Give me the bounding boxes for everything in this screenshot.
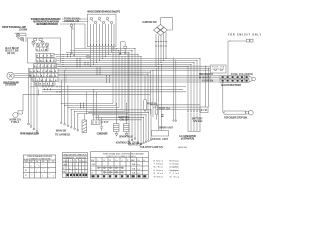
connector row 4 [30, 69, 59, 73]
ignition coil 2 with spark plug [124, 124, 130, 137]
table B frame [63, 153, 88, 178]
CDI unit box [92, 89, 101, 124]
left bottom connector terminals [28, 123, 38, 132]
turn signal control switch [70, 23, 75, 56]
svg-text:SPARK UNIT: SPARK UNIT [159, 127, 173, 130]
fuse capsule B [155, 68, 158, 120]
svg-text:G R Br Y W Bu B: G R Br Y W Bu B [30, 71, 57, 73]
svg-text:Br Brown: Br Brown [170, 159, 180, 162]
color code legend [154, 159, 180, 178]
right small box [200, 107, 208, 113]
svg-text:Lg Light green: Lg Light green [170, 169, 180, 172]
svg-text:SW: SW [24, 159, 28, 161]
coil feed wires [117, 104, 127, 124]
svg-text:—: — [48, 168, 50, 170]
svg-text:o—o: o—o [36, 171, 46, 173]
front turn signal lamp symbols [15, 33, 27, 42]
svg-text:R/W: R/W [201, 110, 208, 112]
svg-text:FUSE 15A: FUSE 15A [159, 108, 170, 111]
handlebar switch bottom connector ticks [91, 44, 115, 46]
svg-text:SILICON RECTIFIER: SILICON RECTIFIER [221, 85, 241, 87]
svg-text:TYPE A: TYPE A [11, 121, 20, 124]
ignition coil 1 with spark plug [114, 124, 120, 137]
wire leader lines from indicator-lamp labels [60, 19, 88, 49]
svg-text:OFF: OFF [92, 164, 97, 166]
secondary lower bundle (center) [88, 110, 151, 144]
center bottom connector dots [140, 139, 152, 145]
svg-text:—: — [37, 164, 39, 166]
table C contact chains [98, 167, 124, 173]
svg-text:(HI-LO): (HI-LO) [7, 53, 15, 55]
alternator wires lower [188, 113, 201, 132]
svg-text:TAIL/STOP LAMP 12V: TAIL/STOP LAMP 12V [140, 146, 163, 149]
svg-text:CONTROL SW: CONTROL SW [64, 21, 80, 23]
svg-text:UNIT: UNIT [102, 122, 110, 124]
svg-text:15A: 15A [132, 167, 136, 170]
connector row 0 [36, 47, 48, 51]
part number note [178, 147, 188, 149]
connector row 1 [36, 53, 54, 57]
horn [13, 111, 23, 118]
svg-text:FOR CM185T ONLY: FOR CM185T ONLY [228, 35, 261, 37]
svg-text:—: — [42, 164, 44, 166]
svg-text:CDI: CDI [92, 123, 99, 125]
svg-text:W WHITE: W WHITE [199, 77, 211, 79]
svg-text:R Red: R Red [154, 173, 164, 175]
svg-text:Bu Blue: Bu Blue [154, 167, 164, 169]
handlebar switch internal wires [91, 24, 115, 44]
svg-text:FUSE 15A (MAIN): FUSE 15A (MAIN) [231, 73, 253, 76]
condenser [100, 117, 103, 131]
handlebar switch box outline [88, 14, 117, 47]
svg-text:MAIN SW: MAIN SW [56, 129, 67, 132]
svg-text:—: — [43, 168, 45, 170]
ignition switch drop wires [156, 32, 166, 67]
svg-text:Gr Gray: Gr Gray [170, 175, 180, 178]
svg-text:L: L [92, 168, 94, 170]
harness lines to fuse box right [58, 66, 210, 74]
svg-text:CONTINUITY: CONTINUITY [63, 157, 75, 159]
harness staircase under handlebar box [91, 47, 115, 67]
svg-text:N: N [25, 170, 27, 172]
headlight bulb [7, 72, 34, 79]
svg-text:Gr: Gr [36, 161, 39, 163]
svg-text:SW: SW [91, 160, 94, 162]
harness lines into rectifier [58, 76, 220, 82]
svg-text:P Pink: P Pink [170, 173, 180, 175]
spark unit box [152, 131, 169, 137]
svg-text:(SWITCH CONNECTIONS): (SWITCH CONNECTIONS) [107, 156, 136, 158]
svg-text:TURN SIGNAL AND LIGHTING SW DI: TURN SIGNAL AND LIGHTING SW DIAGRAM [103, 152, 144, 155]
spark advancer verticals [173, 58, 177, 122]
svg-text:REAR TURN SIGNAL 12V23W: REAR TURN SIGNAL 12V23W [20, 133, 40, 136]
lower-left connector dots [61, 122, 79, 131]
ignition drop connector ticks [155, 42, 167, 47]
svg-text:W White: W White [154, 175, 164, 178]
tail/brake light lines (middle) [23, 86, 186, 111]
table C bottom dark cells [92, 175, 147, 177]
svg-text:G Green: G Green [154, 169, 164, 172]
svg-text:12V 35/25W: 12V 35/25W [5, 85, 17, 87]
svg-text:SPARK UNIT: SPARK UNIT [152, 138, 169, 141]
svg-text:Br G Y W: Br G Y W [37, 56, 53, 58]
rectifier cell marks [222, 76, 248, 82]
svg-text:B Black: B Black [154, 160, 164, 162]
micro text in connector rows [30, 49, 57, 85]
rear stop light switch [223, 110, 253, 115]
svg-text:R/W RED/WHT: R/W RED/WHT [199, 74, 214, 76]
svg-text:o—o: o—o [42, 176, 55, 178]
svg-text:POSITION: POSITION [76, 157, 87, 159]
ignition switch side loop [161, 18, 173, 30]
fuse box inner label [212, 66, 225, 69]
connector ticks on middle lines [43, 86, 52, 91]
svg-text:HEAD LIGHT SW CONNECTION: HEAD LIGHT SW CONNECTION [64, 153, 88, 156]
rectifier connector rows [220, 76, 255, 83]
svg-text:CONDENSER: CONDENSER [97, 134, 108, 136]
svg-text:O Orange: O Orange [170, 163, 180, 166]
svg-text:Br Y G W R B: Br Y G W R B [34, 66, 56, 68]
connector ticks on harness bundle [57, 54, 110, 109]
ignition switch diamond [154, 25, 168, 36]
svg-text:L: L [25, 165, 27, 167]
svg-text:G GREEN: G GREEN [202, 81, 213, 83]
svg-text:—: — [31, 174, 33, 176]
left vertical wires from cluster [29, 68, 38, 131]
fuse capsule A [144, 100, 147, 111]
handlebar switch internal symbols [90, 17, 112, 23]
lower harness bundle (left, with risers) [61, 47, 128, 114]
svg-text:FUSE 15A: FUSE 15A [212, 66, 225, 69]
alternator connector ticks [187, 110, 200, 112]
svg-text:R: R [25, 175, 27, 177]
turn signal indicator cluster box [28, 38, 61, 63]
svg-text:10A: 10A [132, 163, 136, 166]
svg-text:o-o: o-o [137, 164, 141, 166]
main switch (hatched) [82, 92, 87, 133]
lower bundle left staircase drops [61, 71, 78, 130]
svg-text:Lb Light blue: Lb Light blue [170, 166, 180, 169]
svg-text:12V 9AH: 12V 9AH [193, 120, 203, 123]
svg-text:0030Z-354: 0030Z-354 [178, 147, 188, 149]
connector row 7 [35, 82, 55, 86]
svg-text:W: W [79, 161, 81, 163]
connector row 3 [34, 64, 57, 68]
svg-text:Y G W R Br B: Y G W R Br B [33, 80, 58, 82]
connector pair center [161, 115, 164, 117]
table C frame [90, 152, 148, 179]
left-center vertical drops to rear lamps [128, 49, 141, 144]
alternator feed staircase (right) [188, 59, 200, 112]
svg-text:G Bu W R Y: G Bu W R Y [37, 60, 56, 62]
svg-text:SW: SW [25, 161, 28, 163]
svg-text:Y Yellow: Y Yellow [154, 164, 164, 166]
svg-text:(ALTERNATOR): (ALTERNATOR) [181, 138, 194, 141]
wires from harness down to connector box [206, 66, 209, 107]
main harness horizontal bundle (upper) [54, 49, 200, 67]
svg-text:SPARK PLUG: SPARK PLUG [119, 136, 133, 139]
svg-text:G W R Br B: G W R Br B [36, 84, 55, 86]
junction dots [61, 41, 231, 121]
svg-text:12V23W: 12V23W [19, 29, 28, 31]
svg-text:COIL 12V: COIL 12V [120, 120, 129, 122]
lower harness bundle (right) [150, 105, 200, 110]
svg-text:o-o: o-o [137, 168, 141, 170]
svg-text:W: W [31, 161, 33, 163]
lamps inside left cluster [32, 39, 49, 47]
wire from rectifier down to rear switch [222, 82, 224, 112]
center staircase drops to spark unit [140, 65, 162, 131]
svg-text:IGNITION SW: IGNITION SW [143, 22, 158, 24]
svg-text:HANDLE SW(RIGHT) HANDLE SW(LEF: HANDLE SW(RIGHT) HANDLE SW(LEFT) [87, 11, 120, 14]
fuse box right [211, 65, 227, 73]
svg-text:—: — [48, 174, 50, 176]
svg-text:TO HARNESS: TO HARNESS [55, 133, 70, 136]
winker relay arch [120, 42, 127, 55]
connector row 6 [32, 78, 58, 82]
top right option wire [228, 39, 253, 75]
connector row 5 [30, 73, 59, 77]
svg-text:FOR CM185T (STOP SW): FOR CM185T (STOP SW) [224, 117, 247, 119]
svg-text:Bu: Bu [82, 161, 84, 163]
svg-text:o—o—o: o—o—o [69, 172, 84, 174]
svg-text:FUSE 5A: FUSE 5A [147, 103, 157, 106]
connector row 2 [36, 58, 56, 62]
svg-text:R W G Br Y Bu B: R W G Br Y Bu B [30, 75, 57, 77]
table B bottom dark cells [67, 174, 88, 176]
junction ring on harness [87, 55, 90, 58]
svg-text:HIGH BEAM INDICATOR 12V1.7W: HIGH BEAM INDICATOR 12V1.7W [36, 23, 59, 26]
table A frame [23, 155, 55, 178]
